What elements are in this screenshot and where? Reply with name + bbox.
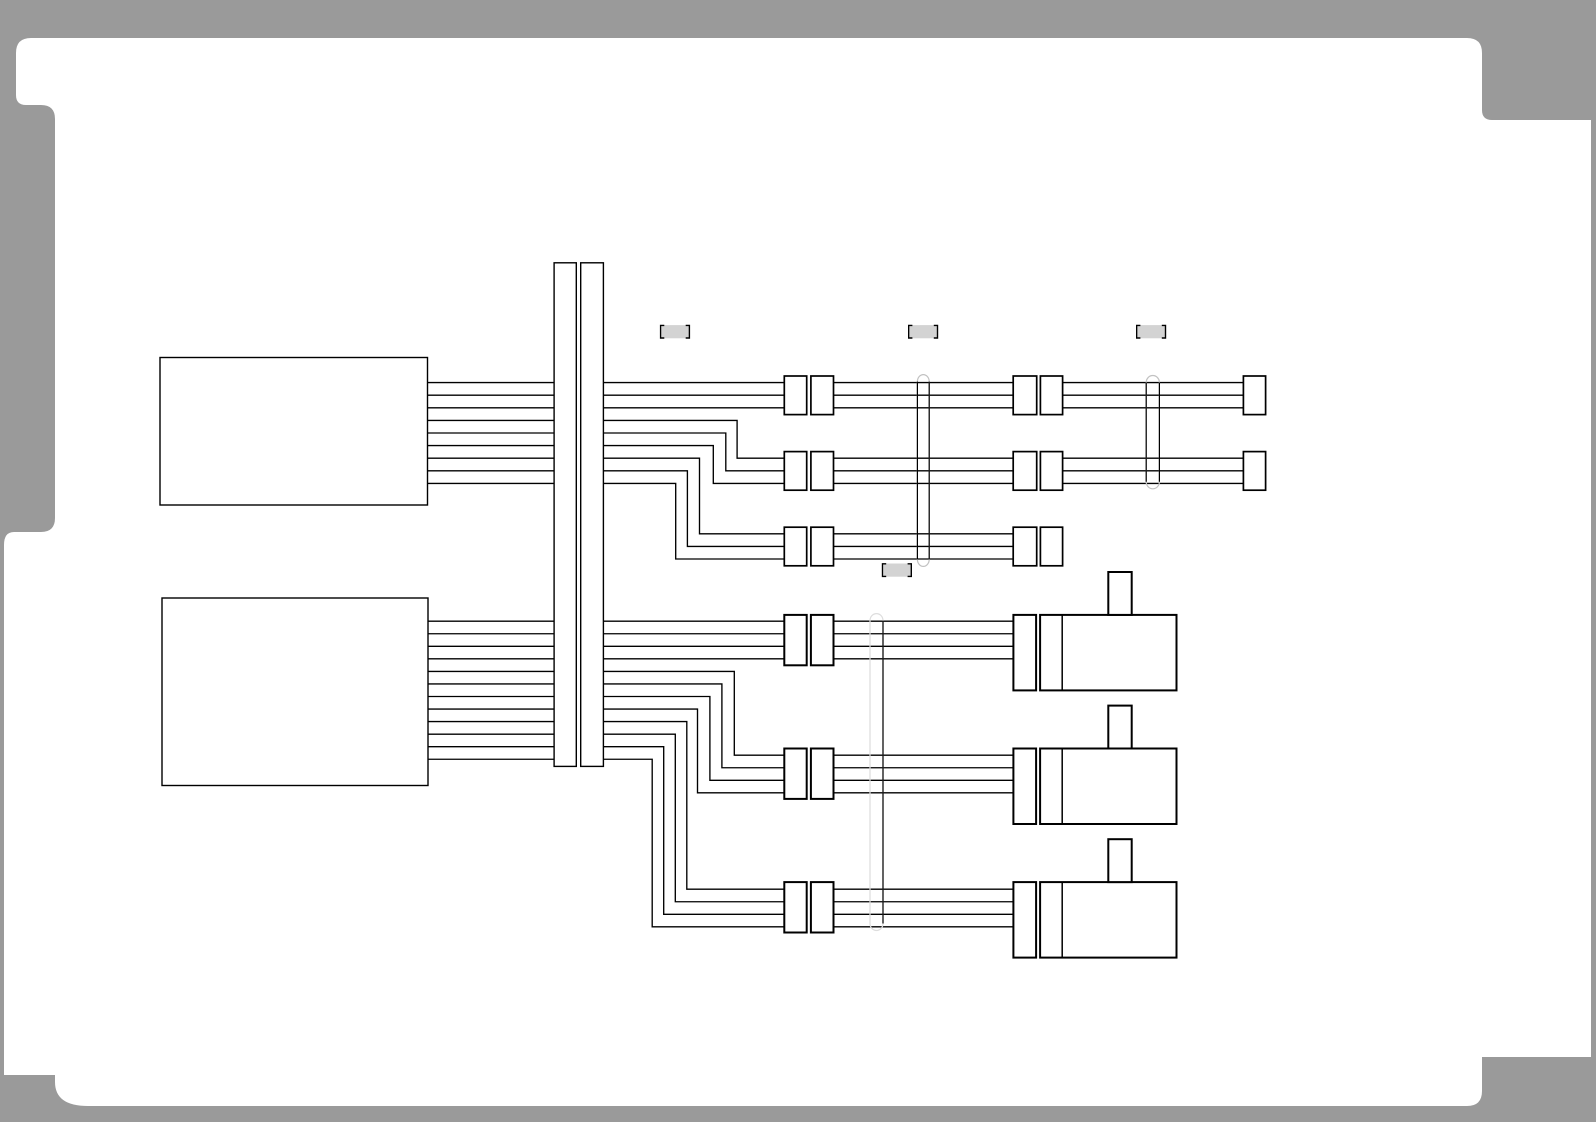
wire w6 (box1 pin6 to terminal T2) xyxy=(428,446,1244,484)
wire w8 (box1 pin8 to connector row3) xyxy=(428,471,1014,547)
wire x9 (box2 pin9 to device M3) xyxy=(428,722,1013,890)
wire x7 (box2 pin7 to device M2) xyxy=(428,697,1013,781)
label tag 1 xyxy=(661,325,690,338)
connector row6 half A xyxy=(784,882,806,932)
connector row3 half A xyxy=(784,527,806,566)
device M2 body xyxy=(1040,749,1176,825)
terminal T1 row1 xyxy=(1243,376,1265,415)
terminal T2 row2 xyxy=(1243,452,1265,491)
wire w5 (box1 pin5 to terminal T2) xyxy=(428,433,1244,471)
wire x2 (box2 pin2 to device M1) xyxy=(428,633,1013,635)
connector row1 half B xyxy=(811,376,834,415)
device M1 body xyxy=(1040,615,1176,691)
connector row2 half A xyxy=(784,452,806,491)
connector row3 half B xyxy=(811,527,834,566)
box2 lower controller xyxy=(162,598,428,786)
cable loop L3 (rows 4-6) xyxy=(870,614,883,931)
connector row3 second pair half A xyxy=(1013,527,1036,566)
cable loop L2 (rows 1-2) xyxy=(1146,376,1159,489)
label tag 4 xyxy=(883,564,912,577)
connector row4 half A xyxy=(784,615,806,665)
wire x4 (box2 pin4 to device M1) xyxy=(428,658,1013,660)
cable loop L1 (rows 1-3) xyxy=(917,375,929,567)
device M2 top tab xyxy=(1108,706,1131,749)
connector row2 half B xyxy=(811,452,834,491)
connector row2 second pair half B xyxy=(1040,452,1062,491)
device M3 plug xyxy=(1013,882,1036,958)
label tag 3 xyxy=(1137,325,1166,338)
connector row3 second pair half B xyxy=(1040,527,1062,566)
wire x1 (box2 pin1 to device M1) xyxy=(428,620,1013,622)
device M3 top tab xyxy=(1108,839,1131,882)
wire w4 (box1 pin4 to terminal T2) xyxy=(428,420,1244,458)
wire x10 (box2 pin10 to device M3) xyxy=(428,734,1013,902)
wire x12 (box2 pin12 to device M3) xyxy=(428,759,1013,927)
wire x11 (box2 pin11 to device M3) xyxy=(428,747,1013,915)
device M1 internal divider xyxy=(1061,615,1063,691)
wire w1 (box1 pin1 to terminal T1) xyxy=(428,382,1244,384)
connector row1 second pair half A xyxy=(1013,376,1036,415)
device M1 top tab xyxy=(1108,572,1131,615)
wire x5 (box2 pin5 to device M2) xyxy=(428,671,1013,755)
connector row4 half B xyxy=(811,615,834,665)
wire x3 (box2 pin3 to device M1) xyxy=(428,645,1013,647)
connector row2 second pair half A xyxy=(1013,452,1036,491)
connector row5 half A xyxy=(784,749,806,799)
device M3 body xyxy=(1040,882,1176,958)
junction bar strip B xyxy=(581,263,604,767)
wire w9 (box1 pin9 to connector row3) xyxy=(428,483,1014,559)
wire w3 (box1 pin3 to terminal T1) xyxy=(428,407,1244,409)
connector row6 half B xyxy=(811,882,834,932)
wire x8 (box2 pin8 to device M2) xyxy=(428,709,1013,793)
device M3 internal divider xyxy=(1061,882,1063,958)
device M2 internal divider xyxy=(1061,749,1063,825)
label tag 2 xyxy=(909,325,938,338)
wire x6 (box2 pin6 to device M2) xyxy=(428,684,1013,768)
device M2 plug xyxy=(1013,749,1036,825)
wire w2 (box1 pin2 to terminal T1) xyxy=(428,394,1244,396)
junction bar strip A xyxy=(554,263,576,767)
connector row5 half B xyxy=(811,749,834,799)
connector row1 second pair half B xyxy=(1040,376,1062,415)
connector row1 half A xyxy=(784,376,806,415)
box1 upper controller xyxy=(160,358,428,506)
device M1 plug xyxy=(1013,615,1036,691)
wire w7 (box1 pin7 to connector row3) xyxy=(428,458,1014,534)
